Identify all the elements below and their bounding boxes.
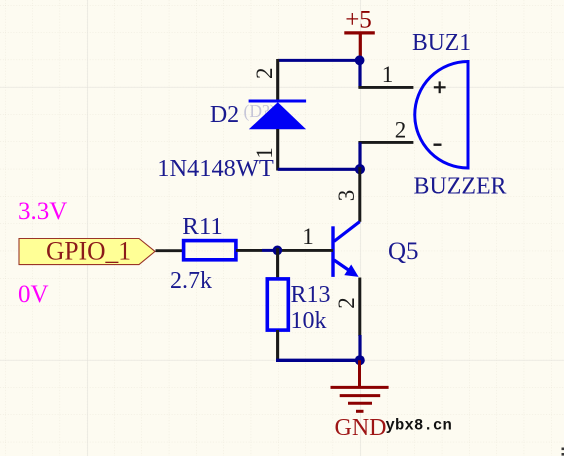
wire from +5 node down to buzzer pin 1	[358, 60, 361, 87]
wire top horizontal (diode top to +5 node)	[278, 59, 360, 62]
svg-text:GPIO_1: GPIO_1	[46, 237, 131, 266]
svg-text:R13: R13	[291, 282, 331, 308]
wire stub to node D	[262, 249, 277, 252]
wire emitter to node C	[358, 335, 361, 360]
transistor base pin 1	[276, 249, 333, 252]
diode D2 body	[249, 101, 307, 129]
transistor emitter arrow	[344, 265, 358, 277]
resistor R13 pin top	[276, 248, 279, 279]
svg-text:BUZ1: BUZ1	[412, 30, 471, 56]
svg-text:GND: GND	[335, 415, 387, 441]
wire buzzer pin2 down to node B	[358, 142, 361, 169]
node A junction at +5	[355, 55, 365, 65]
svg-text:+5: +5	[345, 7, 372, 34]
buzzer BUZ1 pin 1	[358, 86, 413, 89]
wire port to R11	[156, 249, 183, 252]
ground symbol	[331, 360, 389, 411]
resistor R13 pin bottom	[276, 330, 279, 360]
svg-text:R11: R11	[182, 214, 223, 240]
node D junction	[273, 246, 283, 256]
svg-text:D2: D2	[210, 102, 239, 128]
svg-text:2: 2	[252, 68, 277, 80]
wire R13 bottom to node C	[276, 359, 360, 362]
node B junction	[355, 164, 365, 174]
svg-text:10k: 10k	[291, 308, 327, 334]
buzzer BUZ1 pin 2	[358, 141, 413, 144]
wire bottom of diode to node B	[278, 168, 360, 171]
node C junction	[355, 355, 365, 365]
svg-text:BUZZER: BUZZER	[414, 174, 507, 200]
svg-text:3: 3	[334, 190, 359, 202]
transistor emitter pin 2	[358, 278, 361, 337]
diode D2 pin 2 (top)	[276, 59, 279, 101]
svg-text:2.7k: 2.7k	[170, 268, 212, 294]
resistor R13 body	[267, 279, 288, 330]
svg-text:1N4148WT: 1N4148WT	[157, 156, 274, 182]
svg-text:ybx8.cn: ybx8.cn	[386, 416, 453, 434]
svg-text:3.3V: 3.3V	[18, 198, 67, 225]
svg-text:Q5: Q5	[388, 238, 419, 265]
border mark fragments bottom-right	[562, 448, 564, 451]
port GPIO_1	[19, 239, 155, 265]
buzzer U BUZ1 body	[415, 62, 468, 169]
resistor R11 body	[184, 241, 236, 260]
svg-text:0V: 0V	[18, 281, 49, 308]
diode D2 pin 1 (bottom)	[276, 129, 279, 171]
wire R11 to wire stub	[236, 249, 262, 252]
buzzer plus mark	[434, 81, 446, 93]
transistor Q5 collector pin 3	[358, 167, 361, 222]
svg-text:1: 1	[382, 62, 394, 87]
power +5 bar symbol	[344, 33, 375, 59]
transistor Q5 body	[333, 222, 360, 277]
svg-text:2: 2	[395, 117, 407, 142]
svg-text:2: 2	[334, 297, 359, 309]
svg-text:1: 1	[302, 224, 314, 249]
buzzer minus mark	[434, 143, 442, 145]
